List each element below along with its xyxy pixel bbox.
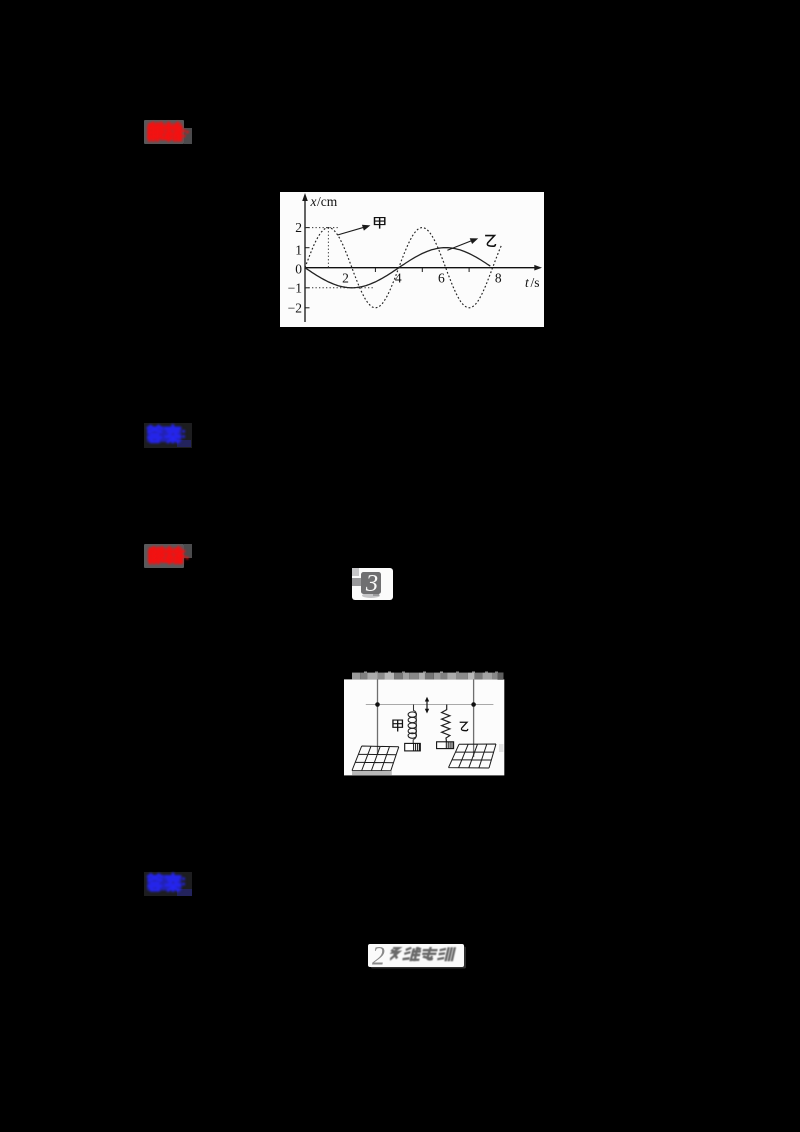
y-axis [304,196,306,323]
svg-text:3: 3 [364,572,377,594]
svg-text:−1: −1 [288,280,302,295]
svg-text:1: 1 [295,242,302,257]
x ticks at t=3,5,7 [374,268,376,272]
badge: section 2 duowei zhuanxun [368,944,465,967]
sticker: navy block label 2 [177,440,191,447]
zigzag spring yi [442,705,450,742]
left platform base [352,771,392,775]
rod [366,704,494,706]
left platform grid [352,746,399,771]
node right junction [471,702,476,707]
spring oscillator figure box [344,670,505,776]
graph figure box [280,192,544,327]
sticker: gray chip right of label 3 [184,544,192,558]
curve yi (solid, T=8s, A=1cm) [305,248,490,288]
svg-text:2: 2 [372,942,385,970]
svg-text:2: 2 [295,220,302,235]
sticker: red 解析 label 3 [144,544,184,568]
double arrow [426,700,428,712]
label yi [460,722,468,730]
ceiling hatch strip [352,673,360,680]
svg-text:/s: /s [531,275,540,290]
svg-text:x: x [310,194,317,209]
svg-text:0: 0 [295,262,302,277]
sticker: gray chip right of label 1 [184,128,192,144]
right string [473,679,475,757]
white panel [280,192,544,327]
dotted guide at -1 level [305,287,374,289]
label yi [485,236,495,247]
coil spring lower link [412,740,414,744]
t-axis [305,267,539,269]
block jia [405,743,421,751]
light artifact right of right platform [499,744,504,752]
white panel [344,679,504,775]
dotted guide vertical t=1 [327,228,329,268]
badge: exercise number 3 [352,568,393,600]
sticker: blue 答案 text 2 [144,421,196,449]
coil spring jia: top hook [413,705,416,740]
dotted guide at +2 level [305,227,340,229]
curve jia (dashed, T=4s, A=2cm) [305,228,502,308]
svg-text:−2: −2 [288,301,302,316]
arrow to yi label [447,240,474,251]
sticker: navy block label 4 [177,889,192,896]
block yi [437,742,454,749]
svg-text:2: 2 [342,271,349,286]
sticker: blue 答案 label 2 [144,423,192,448]
y ticks [305,227,310,229]
sticker: red 解析 text 1 [144,118,196,146]
right platform grid [449,744,497,768]
sticker: red 解析 label 1 [144,120,184,144]
svg-text:6: 6 [438,271,445,286]
label jia [375,218,385,229]
svg-text:/cm: /cm [317,194,338,209]
label jia [393,720,403,731]
sticker: blue 答案 text 4 [144,869,196,897]
svg-text:4: 4 [395,271,402,286]
left string [377,679,379,755]
sticker: red 解析 text 3 [144,543,196,571]
svg-text:8: 8 [495,271,502,286]
node left junction [375,702,380,707]
arrow to jia label [338,227,367,235]
sticker: blue 答案 label 4 [144,872,192,896]
